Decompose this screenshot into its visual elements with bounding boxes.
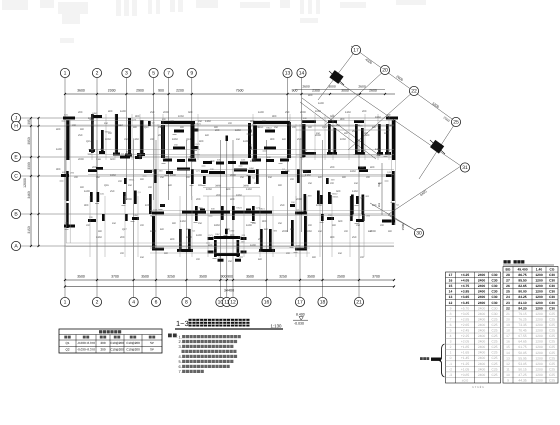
svg-text:C25: C25 (491, 351, 497, 355)
svg-text:1500: 1500 (401, 223, 405, 230)
svg-text:C30: C30 (491, 306, 497, 310)
svg-text:17: 17 (297, 300, 303, 306)
svg-text:4: 4 (450, 334, 452, 338)
svg-text:3300: 3300 (27, 162, 31, 170)
svg-text:C30: C30 (549, 306, 555, 310)
svg-text:C25: C25 (491, 367, 497, 371)
svg-text:86.75: 86.75 (518, 273, 526, 277)
svg-text:1600: 1600 (120, 110, 126, 113)
svg-text:1050: 1050 (316, 204, 322, 207)
svg-text:200: 200 (330, 182, 335, 185)
diagonal dimension numbers (302, 57, 450, 230)
svg-text:400: 400 (150, 170, 155, 173)
svg-text:450: 450 (212, 236, 217, 239)
svg-text:2000: 2000 (282, 230, 288, 233)
svg-text:200: 200 (100, 341, 105, 345)
svg-text:C25: C25 (491, 345, 497, 349)
svg-text:25: 25 (506, 290, 510, 294)
svg-text:80.00: 80.00 (518, 290, 526, 294)
svg-text:900: 900 (344, 132, 349, 135)
svg-text:GBZ2: GBZ2 (266, 126, 272, 129)
svg-text::: : (177, 334, 178, 339)
svg-text:200: 200 (150, 138, 155, 141)
svg-text:1050: 1050 (178, 115, 184, 118)
svg-text:7500: 7500 (236, 89, 244, 93)
svg-text:200: 200 (286, 252, 291, 255)
svg-text:C30: C30 (549, 279, 555, 283)
svg-text:GBZ2: GBZ2 (302, 170, 308, 173)
svg-text:+4.75: +4.75 (461, 284, 470, 288)
svg-text:1200: 1200 (535, 379, 543, 383)
svg-text:200: 200 (360, 256, 365, 259)
svg-text:8: 8 (185, 300, 188, 306)
svg-text:3500: 3500 (307, 275, 315, 279)
svg-text:900: 900 (238, 236, 243, 239)
svg-text:1200: 1200 (535, 362, 543, 366)
svg-text:C25: C25 (549, 373, 555, 377)
svg-text:20: 20 (382, 68, 388, 74)
svg-text:250: 250 (274, 126, 279, 129)
shear walls main block (61, 114, 398, 262)
svg-text:9: 9 (507, 379, 509, 383)
svg-text:C30: C30 (549, 290, 555, 294)
top grid bubbles (60, 68, 306, 77)
svg-text:1200: 1200 (535, 367, 543, 371)
svg-text:7.: 7. (179, 369, 182, 374)
svg-text:1350: 1350 (246, 188, 252, 191)
svg-text:C25: C25 (549, 312, 555, 316)
svg-text:85.50: 85.50 (518, 279, 526, 283)
svg-text:14: 14 (449, 290, 453, 294)
svg-text:GBZ1: GBZ1 (129, 179, 135, 182)
svg-text:2000: 2000 (108, 89, 116, 93)
svg-text:C30: C30 (491, 295, 497, 299)
svg-text:7: 7 (167, 71, 170, 77)
svg-text:200: 200 (254, 182, 259, 185)
svg-text:5: 5 (152, 71, 155, 77)
svg-text:1:130: 1:130 (271, 323, 283, 328)
svg-text:900: 900 (133, 126, 138, 129)
svg-text:200: 200 (186, 228, 191, 231)
svg-text:900: 900 (80, 186, 85, 189)
faint header marks (2, 0, 426, 43)
svg-text:+2.45: +2.45 (461, 329, 470, 333)
svg-text:+2.05: +2.05 (461, 340, 470, 344)
svg-text:200: 200 (330, 166, 335, 169)
svg-text:12000: 12000 (23, 178, 27, 188)
svg-text:QZ6: QZ6 (104, 184, 109, 187)
svg-text:76.25: 76.25 (518, 317, 526, 321)
svg-text:QZ5: QZ5 (86, 140, 91, 143)
svg-text:1200: 1200 (535, 295, 543, 299)
svg-text:900: 900 (278, 184, 283, 187)
svg-text:200: 200 (380, 224, 385, 227)
svg-text:18: 18 (506, 329, 510, 333)
svg-text:C25: C25 (491, 329, 497, 333)
svg-text:250: 250 (228, 260, 233, 263)
svg-text:450: 450 (140, 256, 145, 259)
svg-text:23: 23 (506, 301, 510, 305)
svg-text:200: 200 (344, 230, 349, 233)
svg-text:QZ3: QZ3 (322, 126, 327, 129)
svg-text:1850: 1850 (172, 138, 178, 141)
svg-text:250: 250 (280, 204, 285, 207)
svg-text:Q1: Q1 (65, 341, 69, 345)
svg-text:900: 900 (332, 224, 337, 227)
svg-text:900: 900 (227, 275, 233, 279)
svg-text:2000: 2000 (78, 158, 84, 161)
rotated column cluster X1 (329, 70, 344, 85)
svg-text:84.25: 84.25 (518, 295, 526, 299)
svg-text:1200: 1200 (535, 351, 543, 355)
svg-text:600: 600 (318, 176, 323, 179)
svg-text:3150: 3150 (27, 226, 31, 234)
svg-text:1350: 1350 (375, 148, 381, 151)
svg-text:C10@200: C10@200 (110, 348, 124, 352)
svg-text:C30: C30 (491, 279, 497, 283)
svg-text:2400: 2400 (478, 295, 486, 299)
left grid bubbles (11, 113, 20, 250)
diagonal dim ticks (354, 50, 457, 122)
svg-text:900: 900 (312, 256, 317, 259)
svg-text:1200: 1200 (535, 312, 543, 316)
svg-text:2400: 2400 (478, 273, 486, 277)
svg-text:12: 12 (506, 362, 510, 366)
svg-text:16: 16 (506, 340, 510, 344)
svg-text:600: 600 (226, 188, 231, 191)
svg-text:-0.030~8.370: -0.030~8.370 (77, 341, 95, 345)
svg-text:250: 250 (240, 176, 245, 179)
diagonal grid lines (295, 46, 461, 230)
svg-text:1: 1 (64, 300, 67, 306)
svg-text:84.20: 84.20 (518, 306, 526, 310)
svg-text:1200: 1200 (535, 317, 543, 321)
svg-text:900: 900 (164, 252, 169, 255)
svg-text:1050: 1050 (206, 188, 212, 191)
extra small labels (72, 120, 393, 263)
svg-text:2400: 2400 (478, 312, 486, 316)
svg-text:600: 600 (168, 184, 173, 187)
svg-text:1350: 1350 (352, 190, 358, 193)
svg-text:250: 250 (110, 190, 115, 193)
svg-text:305: 305 (27, 119, 31, 125)
svg-text:17: 17 (506, 334, 510, 338)
svg-text:1200: 1200 (535, 340, 543, 344)
svg-text:200: 200 (196, 198, 201, 201)
svg-text:1050: 1050 (306, 230, 312, 233)
svg-text:250: 250 (278, 222, 283, 225)
svg-text:79.15: 79.15 (518, 312, 526, 316)
svg-text:250: 250 (356, 224, 361, 227)
svg-text:450: 450 (318, 230, 323, 233)
svg-text:200: 200 (256, 126, 261, 129)
svg-text:900: 900 (340, 118, 345, 121)
svg-text:2400: 2400 (478, 345, 486, 349)
bottom dimension lines (64, 279, 395, 288)
svg-text:900: 900 (290, 228, 295, 231)
svg-text:250: 250 (378, 182, 383, 185)
storey height table (446, 260, 559, 389)
svg-text:2400: 2400 (478, 334, 486, 338)
svg-text:1200: 1200 (535, 373, 543, 377)
svg-text:64.65: 64.65 (518, 340, 526, 344)
svg-text:3500: 3500 (141, 275, 149, 279)
svg-text:1350: 1350 (305, 174, 311, 177)
svg-text:1600: 1600 (84, 190, 90, 193)
svg-text:250: 250 (356, 124, 361, 127)
svg-text:1200: 1200 (535, 284, 543, 288)
svg-text:900: 900 (98, 230, 103, 233)
svg-text:28: 28 (506, 273, 510, 277)
left dimension lines (30, 117, 40, 247)
svg-text:-0.030~8.370: -0.030~8.370 (77, 348, 95, 352)
svg-text:2000: 2000 (300, 111, 306, 114)
svg-text:SP: SP (150, 348, 154, 352)
svg-text:1600: 1600 (196, 234, 202, 237)
svg-text:900: 900 (80, 128, 85, 131)
svg-text:600: 600 (205, 134, 210, 137)
svg-text:600: 600 (336, 190, 341, 193)
svg-text:900: 900 (135, 115, 140, 118)
svg-text:3000: 3000 (341, 89, 349, 93)
svg-text:C30: C30 (549, 273, 555, 277)
svg-text:200: 200 (86, 224, 91, 227)
svg-text:13: 13 (449, 295, 453, 299)
svg-text:C30: C30 (549, 295, 555, 299)
svg-text:1 7 1 2 1: 1 7 1 2 1 (472, 385, 484, 389)
svg-text:1: 1 (64, 71, 67, 77)
svg-text:3700: 3700 (111, 275, 119, 279)
svg-text:900: 900 (84, 204, 89, 207)
svg-text:1.40: 1.40 (536, 268, 543, 272)
svg-text:1600: 1600 (170, 174, 176, 177)
svg-text:1200: 1200 (535, 301, 543, 305)
svg-text:250: 250 (160, 176, 165, 179)
svg-text:10: 10 (506, 373, 510, 377)
grid vertical lines (65, 78, 359, 298)
svg-text:1350: 1350 (205, 120, 211, 123)
svg-text:900: 900 (172, 222, 177, 225)
svg-text:200: 200 (186, 176, 191, 179)
svg-text:450: 450 (268, 176, 273, 179)
svg-text:13: 13 (285, 71, 291, 77)
svg-text:1200: 1200 (535, 329, 543, 333)
svg-text:1050: 1050 (340, 138, 346, 141)
svg-text:+1.65: +1.65 (461, 351, 470, 355)
svg-text:900: 900 (262, 220, 267, 223)
svg-text:1850: 1850 (235, 129, 241, 132)
svg-text:61.75: 61.75 (518, 345, 526, 349)
svg-text:900: 900 (140, 178, 145, 181)
svg-text:C10@200: C10@200 (126, 341, 140, 345)
svg-text:+3.65: +3.65 (461, 295, 470, 299)
svg-text:+1.25: +1.25 (461, 362, 470, 366)
svg-text:3: 3 (125, 71, 128, 77)
svg-text:1050: 1050 (145, 204, 151, 207)
svg-text:1350: 1350 (133, 138, 139, 141)
svg-text:2600: 2600 (358, 85, 366, 89)
svg-text:C30: C30 (491, 284, 497, 288)
svg-text:900: 900 (384, 132, 389, 135)
svg-text:C30: C30 (491, 301, 497, 305)
svg-text:1600: 1600 (250, 244, 256, 247)
svg-text:3460: 3460 (215, 185, 221, 188)
svg-text:250: 250 (210, 160, 215, 163)
svg-text:2400: 2400 (478, 290, 486, 294)
svg-text:900: 900 (214, 126, 219, 129)
svg-text:3500: 3500 (246, 275, 254, 279)
svg-text:2600: 2600 (369, 89, 377, 93)
svg-text:450: 450 (158, 126, 163, 129)
svg-text:3460: 3460 (243, 185, 249, 188)
svg-text:C30: C30 (491, 273, 497, 277)
svg-text:15: 15 (449, 284, 453, 288)
svg-text:3600: 3600 (77, 89, 85, 93)
svg-text:200: 200 (216, 194, 221, 197)
svg-text:82.65: 82.65 (518, 284, 526, 288)
svg-text:200: 200 (140, 224, 145, 227)
svg-text:H: H (14, 124, 18, 130)
svg-text:2400: 2400 (478, 362, 486, 366)
svg-text:250: 250 (308, 182, 313, 185)
svg-text:2400: 2400 (478, 301, 486, 305)
svg-text:17: 17 (353, 48, 359, 54)
svg-text:27: 27 (506, 279, 510, 283)
top dimension line (64, 93, 395, 95)
svg-text:450: 450 (128, 184, 133, 187)
svg-text:900: 900 (262, 120, 267, 123)
bottom grid bubbles (60, 297, 363, 306)
svg-text:250: 250 (198, 222, 203, 225)
svg-text:+4.25: +4.25 (461, 273, 470, 277)
svg-text:900: 900 (388, 230, 393, 233)
svg-text:+3.45: +3.45 (461, 301, 470, 305)
svg-text:C25: C25 (549, 379, 555, 383)
svg-text:1850: 1850 (375, 116, 381, 119)
svg-text:1050: 1050 (250, 160, 256, 163)
svg-text:1850: 1850 (110, 174, 116, 177)
svg-text:18: 18 (320, 300, 326, 306)
svg-text:200: 200 (362, 110, 367, 113)
svg-text:CG: CG (550, 268, 555, 272)
svg-text:2400: 2400 (478, 284, 486, 288)
svg-text:30: 30 (416, 231, 422, 237)
svg-text:600: 600 (368, 230, 373, 233)
svg-text:67.55: 67.55 (518, 334, 526, 338)
svg-text:250: 250 (297, 138, 302, 141)
svg-text:1850: 1850 (236, 194, 242, 197)
svg-text:C25: C25 (491, 340, 497, 344)
svg-text:200: 200 (170, 120, 175, 123)
svg-text:+4.05: +4.05 (461, 279, 470, 283)
svg-text:QZ4: QZ4 (186, 138, 191, 141)
svg-text:C10@200: C10@200 (126, 348, 140, 352)
svg-text:2000: 2000 (296, 198, 302, 201)
svg-text:1200: 1200 (535, 279, 543, 283)
svg-text:1: 1 (450, 351, 452, 355)
svg-text:8: 8 (450, 312, 452, 316)
svg-text:900: 900 (292, 89, 298, 93)
svg-text:600: 600 (188, 111, 193, 114)
svg-text:1600: 1600 (56, 148, 62, 151)
svg-text:200: 200 (364, 132, 369, 135)
svg-text:44.35: 44.35 (518, 379, 526, 383)
svg-text:C25: C25 (549, 317, 555, 321)
svg-text:450: 450 (354, 182, 359, 185)
svg-text:200: 200 (118, 180, 123, 183)
svg-text:250: 250 (150, 111, 155, 114)
svg-text:1600: 1600 (318, 102, 324, 105)
svg-text:1350: 1350 (345, 111, 351, 114)
svg-text:200: 200 (158, 134, 163, 137)
svg-text:SP: SP (150, 341, 154, 345)
svg-text:250: 250 (78, 134, 83, 137)
svg-text:200: 200 (290, 178, 295, 181)
svg-text:2300: 2300 (312, 89, 320, 93)
svg-text:600: 600 (372, 126, 377, 129)
svg-text:C30: C30 (491, 290, 497, 294)
svg-text:400: 400 (208, 244, 213, 247)
svg-text:-2: -2 (449, 367, 452, 371)
svg-text:2: 2 (96, 71, 99, 77)
svg-text:400: 400 (250, 120, 255, 123)
svg-text:1350: 1350 (96, 236, 102, 239)
diagonal grid bubbles (351, 45, 469, 237)
rotated column cluster X2 (430, 140, 445, 154)
svg-text:900: 900 (192, 160, 197, 163)
brace annotation (420, 344, 445, 377)
svg-text:81.10: 81.10 (518, 301, 526, 305)
mid dim lines (203, 188, 260, 197)
svg-text:1050: 1050 (315, 110, 321, 113)
svg-text:GBZ2: GBZ2 (332, 193, 338, 196)
svg-text:1350: 1350 (180, 220, 186, 223)
level symbol (293, 313, 308, 326)
svg-text:600: 600 (258, 258, 263, 261)
svg-text:3500: 3500 (199, 275, 207, 279)
left dimension numbers (23, 119, 31, 234)
svg-text:900: 900 (330, 236, 335, 239)
svg-text:+1.05: +1.05 (461, 367, 470, 371)
svg-text:3050: 3050 (27, 137, 31, 145)
svg-text:900: 900 (56, 168, 61, 171)
svg-text:200: 200 (228, 122, 233, 125)
svg-text:1850: 1850 (350, 170, 356, 173)
svg-text:13: 13 (506, 356, 510, 360)
svg-text:400: 400 (308, 94, 313, 97)
svg-text:C25: C25 (549, 351, 555, 355)
svg-text:7: 7 (450, 317, 452, 321)
svg-text:3250: 3250 (167, 275, 175, 279)
svg-text:6: 6 (450, 323, 452, 327)
svg-text:±0.0: ±0.0 (462, 378, 469, 382)
svg-text:1850: 1850 (88, 117, 94, 120)
svg-text:73.35: 73.35 (518, 323, 526, 327)
svg-text:58.85: 58.85 (518, 351, 526, 355)
svg-text:2400: 2400 (478, 367, 486, 371)
svg-text:22: 22 (411, 89, 417, 95)
svg-text:GBZ1: GBZ1 (333, 196, 339, 199)
svg-text:600: 600 (330, 115, 335, 118)
svg-text:C: C (14, 174, 18, 180)
svg-text:22: 22 (506, 306, 510, 310)
svg-text:250: 250 (198, 120, 203, 123)
svg-text:3000: 3000 (328, 85, 336, 89)
svg-text:600: 600 (110, 158, 115, 161)
svg-text:2400: 2400 (478, 306, 486, 310)
svg-text:2400: 2400 (478, 329, 486, 333)
svg-text:34400: 34400 (224, 289, 234, 293)
